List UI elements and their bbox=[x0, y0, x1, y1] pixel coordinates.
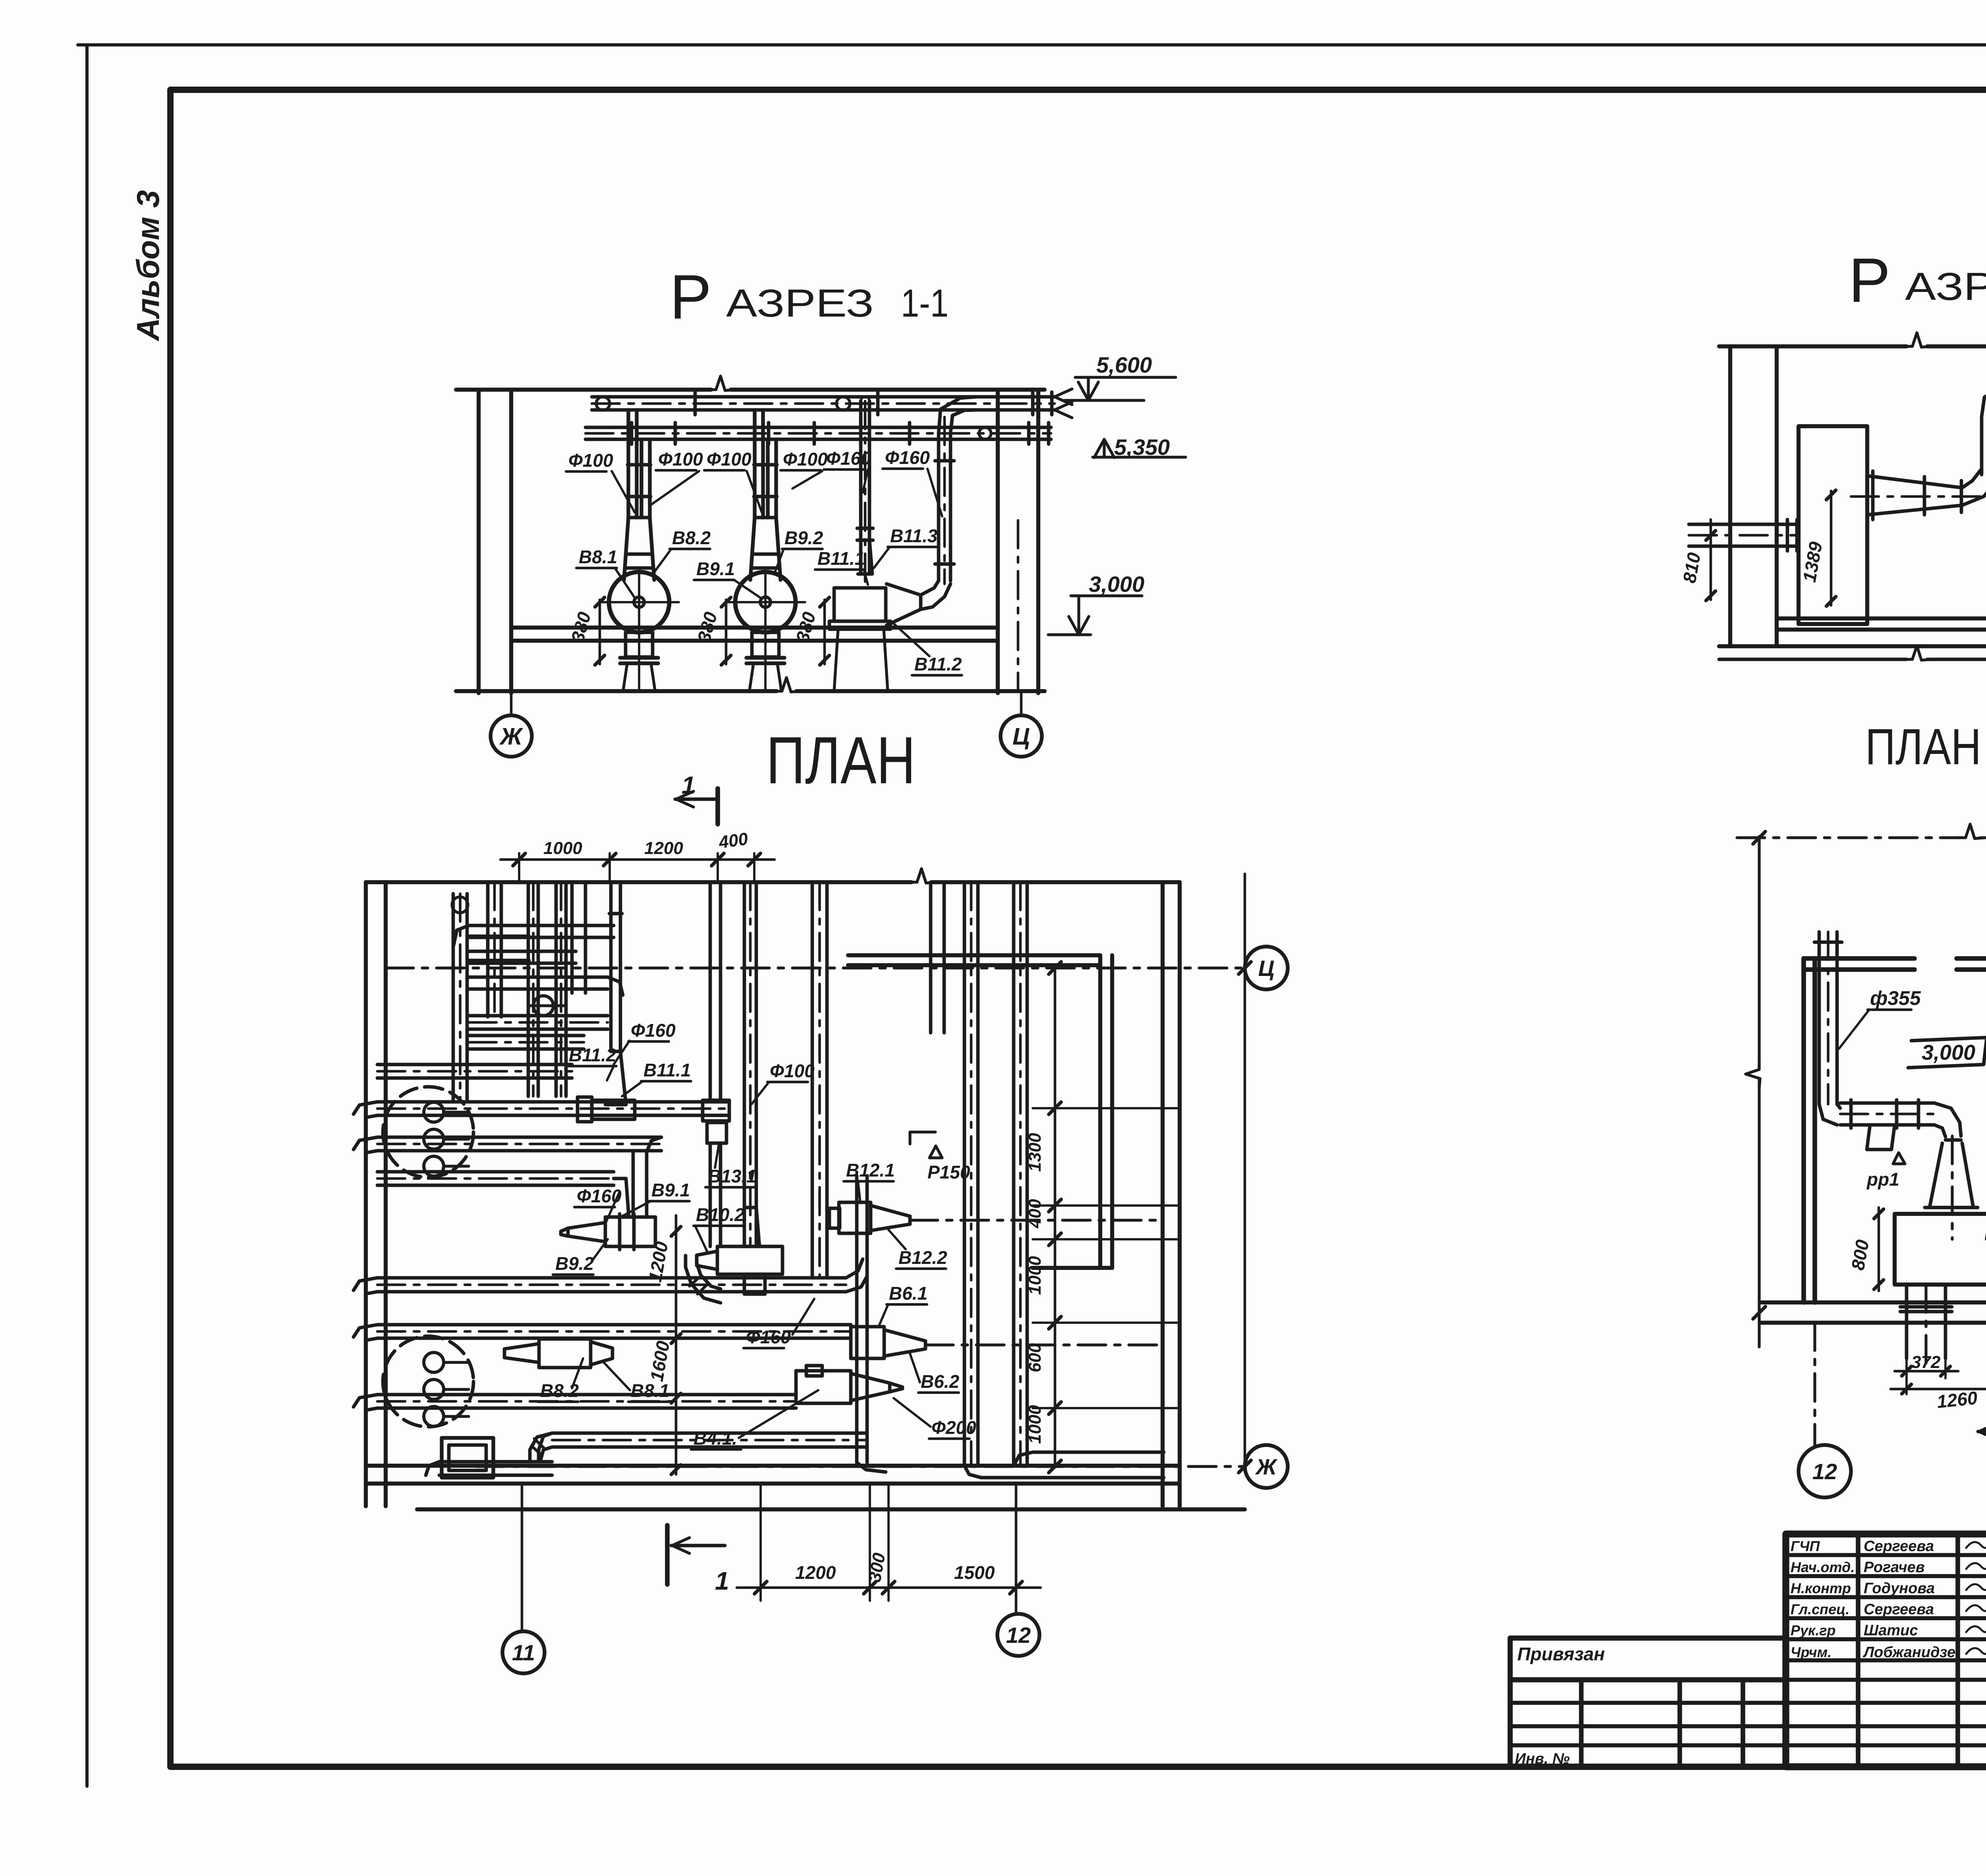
svg-text:В11.1: В11.1 bbox=[817, 548, 865, 569]
svg-text:В12.1: В12.1 bbox=[846, 1160, 895, 1180]
svg-text:Р150: Р150 bbox=[927, 1162, 970, 1182]
svg-text:В9.1: В9.1 bbox=[651, 1180, 690, 1200]
svg-text:1200: 1200 bbox=[644, 839, 683, 858]
svg-text:11: 11 bbox=[512, 1640, 535, 1665]
svg-text:В11.3: В11.3 bbox=[890, 526, 938, 546]
svg-text:В10.2: В10.2 bbox=[696, 1204, 745, 1225]
svg-text:400: 400 bbox=[717, 829, 750, 852]
svg-text:Инв. №: Инв. № bbox=[1515, 1750, 1570, 1767]
svg-text:В11.2: В11.2 bbox=[914, 654, 962, 674]
svg-text:рр1: рр1 bbox=[1866, 1169, 1899, 1190]
svg-text:1000: 1000 bbox=[1025, 1256, 1045, 1295]
svg-text:Альбом 3: Альбом 3 bbox=[130, 190, 166, 342]
svg-text:1500: 1500 bbox=[954, 1562, 995, 1583]
svg-text:АЗРЕЗ: АЗРЕЗ bbox=[726, 281, 874, 325]
svg-text:Ф100: Ф100 bbox=[658, 449, 703, 469]
svg-text:1-1: 1-1 bbox=[901, 281, 949, 325]
svg-text:В6.2: В6.2 bbox=[921, 1371, 960, 1392]
svg-text:Привязан: Привязан bbox=[1517, 1644, 1605, 1664]
svg-text:В4.1.: В4.1. bbox=[694, 1428, 737, 1449]
svg-text:Ф100: Ф100 bbox=[707, 449, 752, 469]
svg-text:ГЧП: ГЧП bbox=[1791, 1538, 1820, 1554]
svg-text:В6.1: В6.1 bbox=[889, 1283, 927, 1304]
svg-text:В8.2: В8.2 bbox=[672, 527, 711, 548]
svg-text:ПЛАН: ПЛАН bbox=[766, 723, 916, 798]
svg-text:Ф160: Ф160 bbox=[746, 1327, 791, 1347]
svg-text:Сергеева: Сергеева bbox=[1864, 1601, 1934, 1618]
svg-text:1200: 1200 bbox=[795, 1562, 836, 1583]
svg-text:Ф160: Ф160 bbox=[631, 1020, 676, 1041]
svg-text:В9.2: В9.2 bbox=[784, 527, 823, 548]
svg-text:5,600: 5,600 bbox=[1096, 352, 1152, 377]
svg-text:1000: 1000 bbox=[1025, 1405, 1045, 1444]
svg-text:АЗРЕЗ: АЗРЕЗ bbox=[1905, 265, 1986, 308]
svg-text:В9.2: В9.2 bbox=[555, 1253, 594, 1274]
svg-text:Годунова: Годунова bbox=[1864, 1580, 1935, 1597]
svg-text:Сергеева: Сергеева bbox=[1864, 1538, 1934, 1555]
svg-text:1: 1 bbox=[682, 772, 695, 799]
svg-text:12: 12 bbox=[1006, 1623, 1031, 1648]
svg-text:Гл.спец.: Гл.спец. bbox=[1791, 1601, 1849, 1617]
svg-text:ф355: ф355 bbox=[1870, 987, 1921, 1009]
svg-text:В8.1: В8.1 bbox=[579, 547, 617, 567]
svg-text:ПЛАН: ПЛАН bbox=[1865, 719, 1981, 775]
svg-text:Шатис: Шатис bbox=[1864, 1622, 1918, 1639]
svg-text:Лобжанидзе: Лобжанидзе bbox=[1862, 1644, 1955, 1661]
svg-text:Ц: Ц bbox=[1012, 723, 1030, 750]
svg-text:Чрчм.: Чрчм. bbox=[1791, 1644, 1831, 1660]
svg-text:372: 372 bbox=[1911, 1352, 1941, 1372]
svg-text:В11.1: В11.1 bbox=[643, 1060, 691, 1080]
svg-text:1000: 1000 bbox=[543, 839, 582, 858]
svg-text:Нач.отд.: Нач.отд. bbox=[1791, 1559, 1855, 1575]
svg-text:Ц: Ц bbox=[1258, 956, 1275, 981]
svg-text:600: 600 bbox=[1025, 1343, 1045, 1372]
svg-text:Ф200: Ф200 bbox=[931, 1417, 976, 1438]
svg-text:В11.2: В11.2 bbox=[569, 1045, 616, 1065]
svg-text:Ф160: Ф160 bbox=[885, 447, 930, 468]
svg-text:3,000: 3,000 bbox=[1089, 572, 1144, 597]
svg-text:Ф100: Ф100 bbox=[568, 450, 613, 471]
svg-text:В9.1: В9.1 bbox=[696, 558, 735, 579]
svg-text:12: 12 bbox=[1812, 1459, 1837, 1484]
svg-text:Н.контр: Н.контр bbox=[1791, 1580, 1851, 1596]
svg-text:3,000: 3,000 bbox=[1922, 1041, 1975, 1065]
svg-text:Ф160: Ф160 bbox=[826, 448, 871, 469]
svg-text:Ж: Ж bbox=[1255, 1454, 1278, 1479]
svg-text:1260: 1260 bbox=[1936, 1387, 1979, 1412]
svg-text:400: 400 bbox=[1025, 1199, 1045, 1229]
svg-text:Рогачев: Рогачев bbox=[1864, 1559, 1925, 1576]
svg-text:Ж: Ж bbox=[499, 723, 524, 750]
svg-text:1300: 1300 bbox=[1025, 1133, 1045, 1172]
svg-text:Рук.гр: Рук.гр bbox=[1791, 1622, 1835, 1638]
svg-text:Р: Р bbox=[1849, 245, 1894, 315]
svg-text:Ф100: Ф100 bbox=[770, 1061, 815, 1081]
svg-text:В8.1: В8.1 bbox=[631, 1380, 669, 1401]
svg-text:Р: Р bbox=[670, 262, 715, 332]
svg-text:1: 1 bbox=[715, 1567, 729, 1595]
svg-text:Ф100: Ф100 bbox=[783, 449, 828, 469]
